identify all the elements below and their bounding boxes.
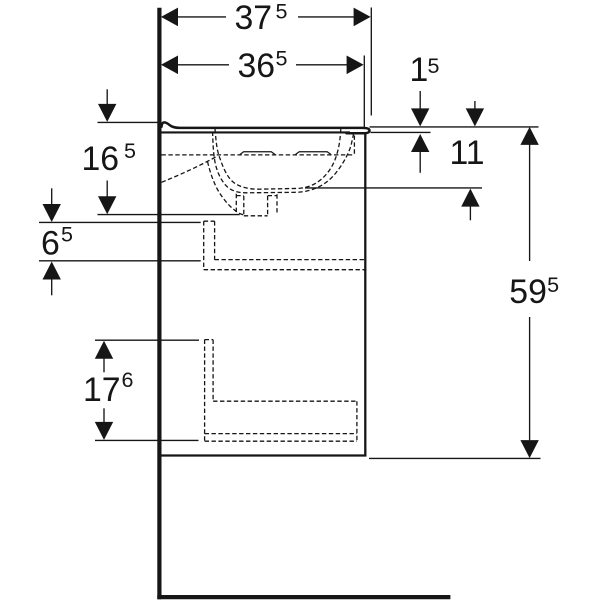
svg-text:6: 6 xyxy=(122,368,134,392)
svg-text:5: 5 xyxy=(428,54,440,78)
svg-text:1: 1 xyxy=(410,51,429,89)
svg-text:5: 5 xyxy=(61,223,73,247)
svg-text:17: 17 xyxy=(83,371,121,409)
svg-text:5: 5 xyxy=(276,47,288,71)
svg-text:5: 5 xyxy=(276,0,288,24)
svg-text:36: 36 xyxy=(238,47,276,85)
svg-text:5: 5 xyxy=(124,139,136,163)
svg-text:59: 59 xyxy=(509,273,547,311)
svg-text:37: 37 xyxy=(235,0,273,37)
svg-text:6: 6 xyxy=(41,225,60,263)
svg-text:16: 16 xyxy=(82,140,120,178)
svg-text:5: 5 xyxy=(547,273,559,297)
svg-text:11: 11 xyxy=(450,134,485,172)
